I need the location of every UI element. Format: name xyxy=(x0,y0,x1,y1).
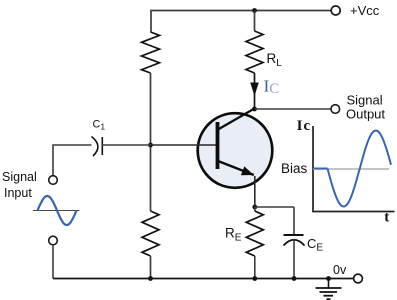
resistor R1 (upper bias resistor) xyxy=(142,32,160,73)
transistor emitter lead diagonal xyxy=(218,161,254,175)
capacitor CE top plate xyxy=(284,234,304,236)
terminal 0v xyxy=(354,274,363,283)
svg-text:+Vcc: +Vcc xyxy=(350,3,380,18)
wire RL bottom to collector node with current arrow xyxy=(254,73,256,109)
terminal Signal Output xyxy=(331,105,340,114)
node R2 ground junction xyxy=(148,276,153,281)
graph output sine waveform xyxy=(328,131,392,207)
svg-text:Bias: Bias xyxy=(281,161,308,176)
resistor RE xyxy=(246,211,263,256)
wire RL top lead xyxy=(254,11,256,32)
capacitor C1 right plate xyxy=(101,137,103,155)
wire lower input terminal to ground rail xyxy=(52,245,54,279)
wire CE top lead xyxy=(293,207,295,235)
svg-text:t: t xyxy=(384,210,389,226)
wire CE bottom lead to ground rail xyxy=(293,240,295,279)
graph axes xyxy=(313,126,395,212)
svg-text:0v: 0v xyxy=(333,263,347,277)
wire top rail from R1 top to +Vcc terminal xyxy=(151,11,331,33)
node base junction xyxy=(148,143,153,148)
resistor RL xyxy=(246,31,263,73)
wire bottom ground rail xyxy=(53,278,354,280)
wire emitter vertical to emitter node xyxy=(254,176,256,207)
svg-text:Input: Input xyxy=(4,186,32,200)
wire RE top lead xyxy=(254,207,256,211)
terminal +Vcc xyxy=(331,6,340,15)
wire base lead from divider junction into transistor xyxy=(151,144,217,146)
node emitter junction xyxy=(252,205,257,210)
svg-text:Signal: Signal xyxy=(347,92,383,107)
graph output waveform flat start xyxy=(314,168,328,170)
graph bias level gray line xyxy=(313,168,389,170)
terminal signal input upper xyxy=(49,176,58,185)
resistor R2 (lower bias resistor) xyxy=(142,211,159,256)
capacitor CE curved bottom plate xyxy=(284,240,305,246)
node collector junction xyxy=(252,107,257,112)
capacitor C1 curved left plate xyxy=(92,137,98,157)
input sine waveform xyxy=(38,196,77,225)
svg-text:Output: Output xyxy=(346,106,385,121)
arrow Ic current arrowhead xyxy=(250,83,259,97)
wire divider middle (R1 bottom to R2 top) xyxy=(150,73,152,211)
node RE ground junction xyxy=(252,276,257,281)
node CE ground junction xyxy=(292,276,297,281)
svg-text:Signal: Signal xyxy=(2,170,37,184)
wire R2 bottom to ground rail xyxy=(150,256,152,279)
input sine axis line xyxy=(33,210,80,212)
wire C1 to base junction xyxy=(102,144,150,146)
node top junction of RL and Vcc rail xyxy=(252,8,257,13)
wire input terminal to C1 xyxy=(53,145,92,176)
node ground symbol junction xyxy=(326,276,331,281)
svg-text:Ic: Ic xyxy=(297,118,311,134)
arrow emitter arrowhead xyxy=(241,166,254,175)
wire RE bottom to ground rail xyxy=(254,256,256,279)
transistor Q1 circle body xyxy=(198,113,273,188)
transistor base bar xyxy=(216,122,220,169)
wire collector to signal output terminal xyxy=(255,108,332,110)
transistor collector lead diagonal xyxy=(218,109,255,130)
terminal signal input lower xyxy=(49,236,58,245)
wire emitter node to CE branch xyxy=(255,206,294,208)
ground symbol xyxy=(316,279,342,300)
